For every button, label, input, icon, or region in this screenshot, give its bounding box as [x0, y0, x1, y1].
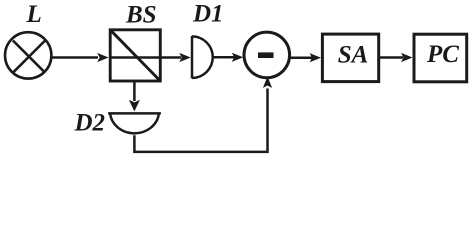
- lamp L: [5, 32, 51, 78]
- wire SA to PC: [379, 56, 403, 59]
- minus sign: [258, 52, 274, 58]
- box PC: [414, 34, 467, 82]
- svg-text:L: L: [26, 1, 42, 28]
- wire subtractor to SA: [290, 56, 313, 59]
- wire D1 to subtractor: [213, 56, 236, 59]
- svg-text:PC: PC: [426, 41, 459, 68]
- wire BS to D1: [160, 56, 181, 59]
- svg-text:D2: D2: [74, 109, 106, 136]
- arrowhead into BS: [97, 53, 108, 62]
- beam splitter BS: [110, 30, 160, 81]
- box SA: [322, 34, 378, 82]
- arrowhead into D1: [179, 53, 190, 62]
- wire BS down to D2: [133, 81, 136, 101]
- arrowhead into subtractor bottom (up): [263, 77, 272, 88]
- subtractor node: [244, 32, 290, 78]
- arrowhead into PC: [401, 53, 412, 62]
- svg-text:D1: D1: [192, 1, 224, 28]
- arrowhead into D2 (down): [129, 100, 140, 112]
- wire through BS: [110, 56, 160, 59]
- detector D1: [192, 36, 213, 79]
- wire feedback D2 to subtractor: [134, 89, 267, 152]
- arrowhead into subtractor left: [232, 53, 243, 62]
- arrowhead into SA: [310, 53, 321, 62]
- detector D2: [108, 113, 161, 133]
- svg-text:SA: SA: [338, 42, 369, 69]
- wire L to BS: [51, 56, 98, 59]
- svg-text:BS: BS: [125, 2, 157, 29]
